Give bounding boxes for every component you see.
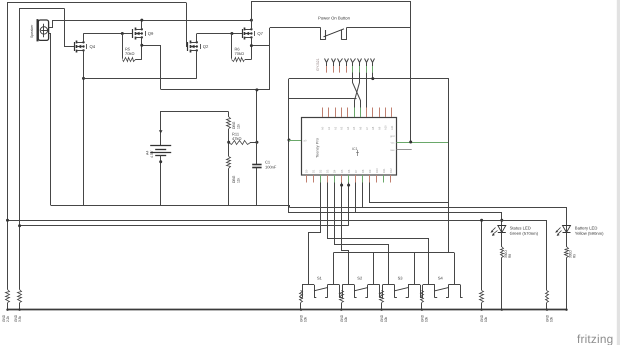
wire SDA crossover xyxy=(353,73,361,108)
LED D1 Status green xyxy=(491,226,539,237)
junction node speaker-q7 rail xyxy=(250,19,253,22)
svg-text:10k: 10k xyxy=(344,316,348,322)
resistor R12 11k xyxy=(227,157,241,206)
svg-text:D1: D1 xyxy=(312,169,316,173)
wire U1 pin10 to aux rail xyxy=(370,183,449,203)
svg-text:10k: 10k xyxy=(304,316,308,322)
wire speaker pin1 to top net xyxy=(49,21,252,28)
wire green A0 to IC left pin xyxy=(289,140,302,142)
svg-text:Speaker: Speaker xyxy=(30,24,34,38)
svg-text:D10: D10 xyxy=(375,168,379,173)
connector J1 pin 5 xyxy=(351,59,356,73)
svg-text:10k: 10k xyxy=(384,316,388,322)
junction bus-R16 xyxy=(18,309,20,311)
svg-text:Yellow (590nm): Yellow (590nm) xyxy=(575,231,604,236)
U1 top pin 2 xyxy=(327,108,331,131)
U1 top pin 10 xyxy=(377,108,381,131)
wire status LED rail xyxy=(289,213,502,226)
junction Q9 drain / top net xyxy=(140,19,143,22)
U1 bottom pin 3 xyxy=(319,169,323,182)
capacitor C1 100nF xyxy=(252,160,277,170)
wire Q9 drain to top net xyxy=(141,20,143,29)
wire switched rail vertical xyxy=(269,28,271,90)
resistor R6 70k xyxy=(232,34,252,62)
svg-text:raw: raw xyxy=(390,148,394,152)
wire S3 right up xyxy=(414,253,416,285)
wire GND bus A xyxy=(51,205,289,207)
wire inner left vertical (x=19) xyxy=(19,8,21,290)
svg-text:2.2k: 2.2k xyxy=(6,316,10,322)
svg-text:D2: D2 xyxy=(319,169,323,173)
wire GY-521 pull rail xyxy=(289,98,357,100)
wire inner top xyxy=(20,8,65,10)
wire switch common rail xyxy=(333,252,454,254)
wire Q4 gate feed xyxy=(65,9,75,47)
junction battery minus pin xyxy=(159,160,162,163)
resistor R8 330 for status LED xyxy=(501,233,513,311)
wire rail2 from x=19 xyxy=(20,225,349,227)
junction bus-R15 xyxy=(6,309,8,311)
U1 right pin VCC green wire xyxy=(397,142,449,144)
svg-text:70kΩ: 70kΩ xyxy=(125,51,134,56)
wire VCC rail under GY-521 xyxy=(289,78,449,80)
svg-text:D11: D11 xyxy=(382,168,386,173)
wire Q2 drain up xyxy=(196,34,198,43)
U1 top pin 4 xyxy=(340,108,344,131)
svg-text:S2: S2 xyxy=(357,276,363,281)
wire Q2 drain to Q7 gate xyxy=(197,33,242,35)
svg-text:D6: D6 xyxy=(347,169,351,173)
U1 top pin 1 xyxy=(321,108,325,131)
U1 top pin 3 xyxy=(333,108,337,131)
svg-text:R9: R9 xyxy=(573,254,577,258)
switch S1 xyxy=(300,276,342,298)
svg-text:D4: D4 xyxy=(333,169,337,173)
wire Q4 drain to Q9 gate xyxy=(83,33,132,35)
resistor R5 70k xyxy=(123,34,142,62)
svg-text:Q2: Q2 xyxy=(203,44,209,49)
svg-text:GY-521: GY-521 xyxy=(316,58,320,71)
wire GND jog at x=289 xyxy=(289,206,290,208)
battery BT1 4.5V xyxy=(146,130,172,158)
LED D2 Battery yellow xyxy=(555,226,604,237)
U1 bottom pin 13 xyxy=(389,168,393,183)
svg-text:A11: A11 xyxy=(390,125,394,130)
junction rail1 tap xyxy=(6,219,9,222)
svg-text:10k: 10k xyxy=(424,316,428,322)
svg-text:3.3k: 3.3k xyxy=(18,316,22,322)
U1 top pin 6 xyxy=(352,108,356,131)
wire Q7 source node xyxy=(251,37,253,59)
speaker SP1 xyxy=(30,19,48,41)
U1 bottom pin 11 xyxy=(375,168,379,183)
wire Q9 source node xyxy=(141,37,143,59)
wire S4 right up xyxy=(454,253,456,285)
connector J1 pin 3 xyxy=(338,59,343,73)
svg-text:A8: A8 xyxy=(371,126,375,130)
wire left outer vertical (x=7) xyxy=(7,2,9,290)
resistor R10 11k xyxy=(227,112,241,129)
wire rail1 from x=7 xyxy=(8,220,548,222)
U1 top pin 8 xyxy=(365,108,369,131)
wire VCC vertical at x=289 xyxy=(288,79,290,213)
junction node pin7 branch xyxy=(347,184,350,187)
junction node C1 top rail xyxy=(255,88,258,91)
connector J1 pin 1 xyxy=(325,59,329,73)
wire S1 right up xyxy=(333,253,335,285)
resistor R16 bottom left 2 xyxy=(14,290,22,323)
svg-text:S1: S1 xyxy=(317,276,323,281)
junction node R6 top xyxy=(230,32,233,35)
pushbutton Power On Button xyxy=(270,15,411,39)
U1 top pin 5 xyxy=(346,108,350,131)
svg-text:A1: A1 xyxy=(327,126,331,130)
wire battery plus up to R10 row xyxy=(161,112,229,146)
wire U1 to S1 xyxy=(309,183,321,285)
junction status LED / rail1 xyxy=(500,219,503,222)
svg-text:S4: S4 xyxy=(438,276,444,281)
wire U1 pin7 to left rail2 xyxy=(348,183,350,226)
wire GY-521 pin7 down xyxy=(366,73,368,108)
U1 top pin 11 xyxy=(384,108,388,131)
resistor R9 330 for battery LED xyxy=(565,233,577,310)
connector J1 pin 2 xyxy=(332,59,336,73)
U1 bottom pin 12 xyxy=(382,168,386,183)
op-amp U1 microcontroller board xyxy=(302,118,397,176)
wire rail1 corner to R14 xyxy=(546,220,548,290)
junction node Q4 source rail xyxy=(82,77,85,80)
svg-text:70kΩ: 70kΩ xyxy=(234,51,243,56)
switch S4 xyxy=(421,276,463,298)
resistor R14 bottom right 2 xyxy=(546,291,554,323)
wire SCL crossover xyxy=(355,73,360,108)
U1 top pin 12 xyxy=(390,108,394,131)
transistor Q9 xyxy=(133,28,155,40)
U1 top pin 7 xyxy=(359,108,363,131)
wire rail1 drop to R13 xyxy=(481,220,483,290)
svg-text:10k: 10k xyxy=(550,316,554,322)
U1 bottom pin 2 xyxy=(312,169,316,182)
junction Q9 source node xyxy=(140,44,143,47)
resistor R1 10k pulldown xyxy=(300,291,308,323)
svg-text:A5: A5 xyxy=(352,126,356,130)
svg-text:Green (570nm): Green (570nm) xyxy=(510,231,539,236)
U1 bottom pin 7 xyxy=(347,169,351,182)
wire U1 to S3 xyxy=(335,183,389,285)
wire U1 pin9 drop xyxy=(362,183,364,208)
svg-text:D0: D0 xyxy=(305,169,309,173)
transistor Q4 xyxy=(75,41,96,53)
svg-text:fritzing: fritzing xyxy=(577,332,613,345)
svg-text:A0: A0 xyxy=(321,126,325,130)
svg-text:11k: 11k xyxy=(236,177,240,183)
U1 bottom pin 9 xyxy=(361,169,365,182)
wire Q4 source down xyxy=(83,50,85,205)
switch S2 xyxy=(340,276,382,298)
wire top node to V+ rail2 xyxy=(252,2,411,143)
svg-text:Q7: Q7 xyxy=(257,31,263,36)
resistor R2 10k pulldown xyxy=(340,291,348,323)
resistor R13 bottom right 1 xyxy=(480,291,489,323)
svg-text:A2: A2 xyxy=(333,126,337,130)
ground bus bottom xyxy=(8,309,567,311)
switch S3 xyxy=(380,276,422,298)
resistor R3 10k pulldown xyxy=(380,291,389,323)
wire Q7 source to switch rail xyxy=(251,45,269,47)
svg-text:100nF: 100nF xyxy=(265,165,277,170)
svg-text:Teensy Pro: Teensy Pro xyxy=(315,137,320,158)
U1 bottom pin 8 xyxy=(354,169,358,182)
junction node pin6 branch xyxy=(340,184,343,187)
svg-text:A6: A6 xyxy=(359,126,363,130)
resistor R11 47k xyxy=(229,132,257,145)
U1 bottom pin 6 xyxy=(340,169,344,182)
svg-text:D8: D8 xyxy=(361,169,365,173)
wire Q2 source down xyxy=(196,50,198,78)
U1 bottom pin 4 xyxy=(326,169,330,182)
svg-text:gnd: gnd xyxy=(390,134,395,138)
junction Q7 source node xyxy=(250,44,253,47)
junction node R11-C1 xyxy=(255,141,258,144)
junction node pin8 vcc xyxy=(371,77,374,80)
wire battery minus down to GND bus A xyxy=(160,155,162,206)
wire Q4 drain up xyxy=(83,34,85,43)
junction bus-battery LED chain xyxy=(565,309,567,311)
wire C1 bottom to GND bus A xyxy=(256,168,258,206)
svg-text:A3: A3 xyxy=(340,126,344,130)
transistor Q7 xyxy=(243,28,264,40)
svg-text:11k: 11k xyxy=(236,123,240,129)
wire U1 pin8 drop xyxy=(355,183,357,214)
svg-text:D9: D9 xyxy=(368,169,372,173)
svg-text:D12: D12 xyxy=(389,168,393,173)
svg-text:4.5V: 4.5V xyxy=(150,150,154,158)
wire C1 branch vertical xyxy=(256,90,258,164)
svg-text:A9: A9 xyxy=(377,126,381,130)
wire top rail drop to Q2 gate xyxy=(187,3,188,47)
wire U1 to S4 xyxy=(328,183,429,285)
wire GY-521 pin8 to VCC rail xyxy=(372,73,374,79)
svg-text:A7: A7 xyxy=(365,126,369,130)
U1 bottom pin 5 xyxy=(333,169,337,182)
U1 bottom pin 1 xyxy=(305,169,309,182)
wire Q9 source to right xyxy=(142,46,161,90)
resistor R15 bottom left 1 xyxy=(2,290,10,323)
svg-text:S3: S3 xyxy=(398,276,404,281)
connector J1 pin 6 xyxy=(358,59,362,73)
wire Q7 drain to top node xyxy=(251,20,253,29)
wire speaker pin2 down to GND bus A xyxy=(49,34,51,206)
wire sources rail pair1-pair2 xyxy=(84,78,197,80)
page border right edge xyxy=(617,0,620,345)
svg-text:A10: A10 xyxy=(384,125,388,130)
svg-text:D3: D3 xyxy=(326,169,330,173)
connector J1 pin 4 xyxy=(345,59,349,73)
junction node R5 top xyxy=(121,32,124,35)
wire V+ top rail left xyxy=(8,2,187,4)
svg-text:Battery LED: Battery LED xyxy=(575,226,598,231)
U1 top pin 9 xyxy=(371,108,375,131)
wire R10 to junction xyxy=(228,129,230,156)
wire U1 to S2 xyxy=(342,183,349,285)
U1 bottom pin 10 xyxy=(368,169,372,182)
wire S2 right up xyxy=(373,253,375,285)
svg-text:IC1: IC1 xyxy=(352,147,358,151)
wire battery LED rail xyxy=(290,208,567,226)
svg-text:D7: D7 xyxy=(354,169,358,173)
junction node right pin / V+ drop xyxy=(409,141,412,144)
wire switched rail horizontal xyxy=(161,89,270,91)
svg-text:Q9: Q9 xyxy=(148,31,154,36)
junction node divider mid xyxy=(227,141,230,144)
svg-text:Status LED: Status LED xyxy=(510,226,531,231)
svg-text:A4: A4 xyxy=(346,126,350,130)
junction rail2 tap xyxy=(18,224,21,227)
svg-text:Q4: Q4 xyxy=(89,44,95,49)
svg-text:47kΩ: 47kΩ xyxy=(232,136,241,141)
U1 right pin stub xyxy=(397,149,412,151)
transistor Q2 xyxy=(188,41,210,53)
svg-text:Power On Button: Power On Button xyxy=(318,15,351,20)
svg-text:D5: D5 xyxy=(340,169,344,173)
junction rail1-R13 xyxy=(480,219,483,222)
wire switch common vertical xyxy=(448,79,450,253)
resistor R4 10k pulldown xyxy=(420,291,428,323)
svg-text:R8: R8 xyxy=(508,254,512,258)
junction node A0 tap xyxy=(288,139,291,142)
connector J1 pin 8 xyxy=(371,59,375,73)
svg-text:10k: 10k xyxy=(484,316,488,322)
connector J1 pin 7 xyxy=(365,59,369,73)
